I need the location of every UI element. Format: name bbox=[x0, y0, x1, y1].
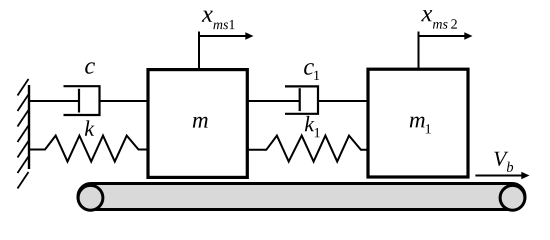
wire: damper c1 right rod bbox=[318, 100, 369, 102]
damper C1: piston bbox=[299, 88, 301, 111]
label V_b bbox=[494, 152, 513, 172]
label m1 bbox=[410, 117, 431, 134]
damper C: piston bbox=[78, 89, 80, 113]
roller left bbox=[78, 185, 103, 210]
wire: damper c left rod bbox=[29, 100, 79, 102]
wire: damper c1 left rod bbox=[247, 100, 300, 102]
label c bbox=[85, 62, 95, 74]
label m bbox=[193, 117, 208, 128]
label c1 bbox=[304, 63, 319, 80]
mass M1 box bbox=[368, 69, 468, 177]
wire: xms2 vertical stem bbox=[418, 32, 420, 69]
label k bbox=[85, 120, 95, 135]
arrow x_ms2 bbox=[419, 32, 473, 40]
wall bbox=[28, 85, 30, 169]
label k1 bbox=[305, 116, 320, 137]
spring K1 bbox=[247, 136, 369, 162]
spring K bbox=[29, 136, 148, 162]
roller right bbox=[500, 185, 525, 210]
wire: xms1 vertical stem bbox=[198, 32, 200, 69]
damper C: cylinder bbox=[64, 86, 100, 115]
wire: damper c right rod bbox=[100, 100, 149, 102]
wall hatching bbox=[18, 79, 29, 189]
belt (conveyor) bbox=[78, 184, 525, 210]
arrow V_b bbox=[475, 172, 529, 180]
damper C1: cylinder bbox=[285, 86, 318, 113]
arrow x_ms1 bbox=[199, 32, 254, 40]
label x_ms1 bbox=[202, 11, 235, 30]
mass M box bbox=[148, 70, 247, 178]
label x_ms2 bbox=[421, 10, 457, 29]
